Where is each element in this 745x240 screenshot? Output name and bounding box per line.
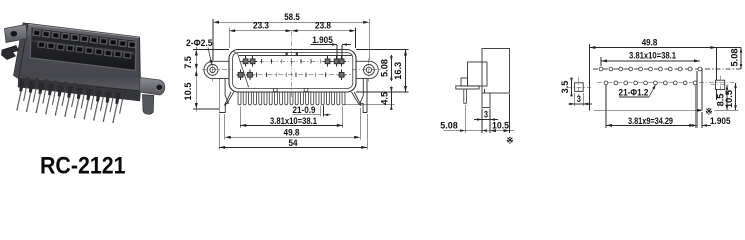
left ear hole [207, 65, 218, 76]
left pad footprint [575, 83, 584, 92]
svg-text:5.08: 5.08 [440, 121, 458, 131]
svg-text:3.81x10=38.1: 3.81x10=38.1 [270, 116, 317, 126]
side view locating peg [464, 89, 467, 103]
front view: connector body outline [229, 50, 356, 93]
svg-text:10.5: 10.5 [492, 121, 509, 131]
svg-text:49.8: 49.8 [642, 37, 658, 47]
svg-text:1.905: 1.905 [710, 116, 731, 126]
svg-text:21-0.9: 21-0.9 [293, 105, 316, 115]
front view inner shell outline [233, 53, 353, 89]
footprint holes bottom row [604, 81, 608, 85]
svg-text:10.5: 10.5 [724, 90, 734, 108]
svg-text:10.5: 10.5 [183, 83, 193, 101]
left corner wing [224, 92, 231, 106]
svg-text:2-Φ2.5: 2-Φ2.5 [186, 38, 213, 48]
left mounting ear [204, 61, 229, 78]
dim 3.5 footprint [571, 83, 573, 92]
dim 10.5 footprint [735, 83, 737, 110]
svg-text:3.5: 3.5 [560, 81, 570, 94]
side view ear plate [456, 86, 479, 89]
row tick marks [261, 59, 263, 64]
solder pin comb [238, 92, 241, 105]
svg-text:3.81x10=38.1: 3.81x10=38.1 [629, 51, 676, 61]
top edge tabs [286, 52, 288, 55]
svg-text:58.5: 58.5 [284, 12, 300, 22]
svg-text:3.81x9=34.29: 3.81x9=34.29 [628, 116, 673, 126]
dim 23.3 [229, 30, 355, 32]
footprint holes top row [599, 67, 603, 71]
dim 5.08 right [390, 61, 392, 75]
footprint row centerlines [593, 68, 742, 70]
side view solder pin [482, 93, 490, 107]
svg-text:4.5: 4.5 [380, 92, 390, 105]
right locating leg [366, 78, 368, 113]
svg-text:7.5: 7.5 [183, 56, 193, 69]
insert top edge line [239, 55, 352, 57]
row centerline top [239, 60, 351, 62]
bottom edge tabs [274, 88, 278, 91]
dim 4.5 right [390, 92, 392, 105]
svg-text:※: ※ [506, 135, 513, 145]
dim 5.08 / 10.5 side [444, 130, 515, 132]
right ear hole [364, 65, 375, 76]
inner slanted key wall [238, 54, 249, 87]
dim 7.5 / 10.5 left [195, 47, 197, 112]
svg-text:5.08: 5.08 [729, 49, 739, 67]
side view body [482, 49, 510, 94]
dim 8.5 footprint [726, 85, 728, 111]
svg-text:1.905: 1.905 [312, 35, 333, 45]
svg-text:16.3: 16.3 [393, 62, 403, 80]
footprint body outline [594, 109, 698, 111]
row centerline bottom [237, 74, 351, 76]
svg-text:23.8: 23.8 [315, 21, 331, 31]
svg-text:RC-2121: RC-2121 [40, 153, 126, 179]
vertical centerline [291, 31, 293, 97]
svg-text:5.08: 5.08 [380, 59, 390, 77]
svg-text:21-Φ1.2: 21-Φ1.2 [619, 88, 649, 98]
side view step [461, 78, 468, 86]
svg-text:49.8: 49.8 [284, 127, 300, 137]
contact pins (cross sections) [245, 56, 247, 66]
right pad footprint [716, 80, 725, 89]
dim 3 side [481, 109, 483, 134]
left locating leg [218, 78, 220, 113]
svg-text:3: 3 [577, 94, 581, 104]
dim 5.08 footprint [740, 48, 742, 70]
connector photo pictorial [2, 23, 165, 123]
side view flange [468, 62, 488, 86]
right corner wing [354, 92, 361, 106]
dim 16.3 right [405, 50, 407, 93]
svg-text:※: ※ [705, 106, 712, 116]
svg-text:23.3: 23.3 [253, 21, 269, 31]
svg-text:54: 54 [289, 138, 299, 148]
dim 3 footprint [574, 93, 576, 106]
dim 58.5 [213, 21, 369, 23]
right mounting ear [356, 61, 378, 78]
svg-text:3: 3 [484, 110, 488, 120]
